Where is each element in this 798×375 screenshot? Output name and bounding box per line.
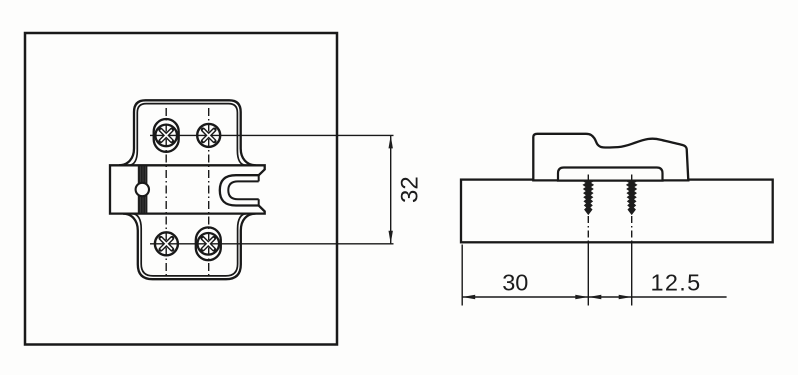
slot opening step edges (caps) xyxy=(258,175,260,205)
mounting plate lower body (inner contour) xyxy=(132,214,247,276)
screw head tick right xyxy=(631,175,633,181)
wing / cross arm of mounting plate with right-hand notch (silhouette) xyxy=(110,165,265,213)
mounting plate lower body (outer contour, front view) xyxy=(123,214,256,280)
arrow at first screw pointing left (12.5 start) xyxy=(588,295,601,299)
screw S1 top-left: oblong hole xyxy=(154,119,179,152)
extension line from panel left edge xyxy=(461,245,463,306)
svg-text:30: 30 xyxy=(502,270,528,296)
dimension 32 line with arrows xyxy=(389,135,393,243)
slot inner U contour xyxy=(228,181,258,199)
screw axis centerline left (dash-dot then solid to dimension) xyxy=(587,216,589,243)
wood screw left (threaded, section) xyxy=(583,181,594,215)
dimension line 30 / 12.5 xyxy=(462,296,726,298)
screw column centerline left (dash-dot) xyxy=(165,108,167,277)
plate base flange (side view strip) xyxy=(558,168,663,181)
screw row centerline bottom, extends to dimension line xyxy=(150,243,394,245)
screw S3 bottom-left xyxy=(155,232,178,255)
screw head tick left xyxy=(587,175,589,181)
arrow at first screw pointing right xyxy=(575,295,588,299)
screw column centerline right (dash-dot) xyxy=(208,108,210,277)
plate upper body side profile xyxy=(533,134,688,181)
svg-text:32: 32 xyxy=(397,176,424,203)
screw S4 bottom-right: oblong hole xyxy=(196,227,221,260)
svg-text:12.5: 12.5 xyxy=(651,270,702,296)
pivot hole on strip xyxy=(136,183,149,196)
cabinet door panel outline (front view square) xyxy=(25,33,337,345)
cabinet side panel (section) xyxy=(461,180,773,243)
screw S2 top-right xyxy=(197,124,220,147)
mounting plate upper body (outer contour, front view) xyxy=(119,100,256,165)
screw row centerline top, extends to dimension line xyxy=(150,134,394,136)
mounting plate upper body (inner contour) xyxy=(129,104,247,166)
wood screw right (threaded, section) xyxy=(626,181,637,215)
knurled adjustment strip (hatched) xyxy=(138,166,148,212)
arrow at panel edge pointing left xyxy=(462,295,475,299)
screw axis centerline right (dash-dot then solid to dimension) xyxy=(631,216,633,243)
arrow at second screw pointing right (12.5 end) xyxy=(619,295,632,299)
